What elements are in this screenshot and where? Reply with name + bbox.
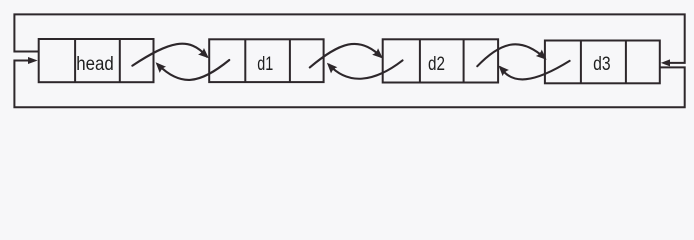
svg-text:d2: d2 [428,53,445,75]
svg-text:head: head [76,53,114,75]
svg-text:d3: d3 [593,53,611,75]
svg-text:d1: d1 [257,53,273,75]
